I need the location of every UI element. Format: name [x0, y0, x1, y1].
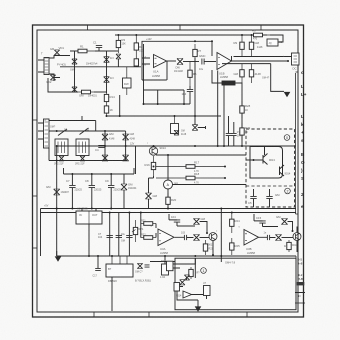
wire U3A out	[175, 236, 194, 238]
transistor Q6	[293, 233, 301, 241]
wire J2 top run	[49, 116, 96, 131]
connector J2	[44, 119, 50, 148]
wire U2 pins	[82, 209, 96, 257]
ic U5 box	[167, 261, 174, 271]
capacitor C6	[266, 193, 280, 199]
op-amp U1A	[153, 55, 167, 74]
wire bus y155	[156, 154, 246, 156]
resistor R13	[222, 81, 235, 85]
wire y185 link	[173, 184, 247, 186]
wire bank feed	[135, 146, 137, 174]
transformer T1	[41, 52, 49, 75]
capacitor C16	[267, 235, 269, 240]
transistor Q8	[183, 291, 192, 298]
resistor R18	[156, 172, 225, 180]
wire R8 to K1	[270, 35, 283, 42]
capacitor C20	[231, 133, 237, 135]
resistor R14	[104, 93, 115, 103]
diode VD6	[104, 76, 114, 82]
wire C7 leads	[71, 174, 73, 209]
diode VD7	[177, 59, 183, 65]
wire diode col 2	[125, 131, 127, 161]
resistor R9	[234, 35, 245, 57]
wire stage feed	[140, 213, 142, 238]
relay K3 box	[76, 139, 89, 156]
wire long vertical feedback	[194, 58, 196, 116]
ammeter M1	[164, 180, 179, 189]
wire gnd jog	[57, 251, 58, 257]
wire center v5	[223, 85, 225, 146]
wire bus to DC jack	[234, 56, 293, 58]
diode VD22	[184, 275, 189, 280]
capacitor C11	[116, 235, 122, 237]
wire bridge top rail	[70, 50, 80, 52]
diode VD3	[72, 59, 77, 64]
marker circle 10	[284, 135, 290, 141]
diode VD15	[46, 185, 60, 195]
title block column	[295, 256, 305, 310]
wire fb top 2	[288, 222, 293, 232]
buzzer HA1 box	[162, 264, 169, 275]
wire collector loop	[250, 147, 283, 179]
diode VD16	[121, 183, 133, 191]
resistor R5	[134, 58, 138, 67]
diode VD8	[59, 156, 64, 161]
wire stage in drops	[155, 224, 157, 238]
wire diode col 1	[104, 131, 106, 161]
op-amp U1B	[217, 53, 232, 76]
wire U5 link	[173, 258, 195, 268]
wire C8 leads	[91, 174, 93, 209]
wire cluster link 1	[180, 287, 204, 295]
transistor Q5	[209, 233, 217, 241]
wire main bus y146	[57, 145, 296, 147]
resistor R16	[145, 156, 156, 176]
diode VD9	[80, 156, 85, 161]
wire rectifier top	[49, 56, 70, 59]
pot wiper arrow	[132, 230, 136, 233]
potentiometer RP1	[133, 220, 144, 242]
wire J2 bottom drop	[48, 148, 50, 161]
wire left main drop	[56, 146, 58, 256]
diode VD23	[180, 280, 185, 285]
wire opamp1 to VD7	[167, 60, 177, 63]
resistor R27	[189, 267, 193, 279]
wire U4 bottom pin	[111, 277, 113, 311]
capacitor C17	[95, 268, 101, 270]
frame zone tick top 2	[179, 25, 181, 30]
diode VD14	[146, 193, 158, 199]
wire C3 stub	[189, 86, 191, 104]
capacitor C14	[184, 235, 186, 240]
transistor Q4 power	[280, 165, 291, 176]
capacitor C4	[95, 145, 105, 152]
frame zone tick top 1	[87, 25, 89, 30]
diode VD24	[174, 130, 179, 135]
ic U7 box	[204, 286, 211, 296]
resistor R2	[78, 90, 94, 97]
resistor R6	[188, 62, 197, 87]
transistor Q3 power	[263, 147, 275, 165]
capacitor C5	[248, 196, 257, 205]
resistor R29	[240, 123, 251, 140]
capacitor C2	[199, 54, 206, 64]
wire Q6 collector	[296, 227, 298, 253]
resistor R12	[249, 64, 261, 83]
frame zone tick left 1	[33, 119, 38, 121]
diode VD10	[102, 132, 114, 140]
wire C6 leads	[269, 189, 271, 207]
relay K1 box	[267, 39, 278, 46]
diode VD25	[192, 125, 198, 131]
wire C19 leads	[228, 116, 230, 146]
wire C2 to opamp2	[205, 61, 217, 63]
relay K2 box	[55, 139, 68, 156]
diode VD2	[46, 75, 56, 84]
diode VD5	[104, 56, 114, 62]
capacitor C10	[107, 235, 113, 237]
wire VD26 lead	[117, 59, 119, 67]
wire U3B out	[259, 236, 276, 238]
wire vertical bridge left	[74, 51, 76, 92]
capacitor C12	[126, 235, 132, 237]
dashed enclosure box	[246, 129, 295, 207]
net label column	[296, 70, 307, 214]
wire VD20 to Q6	[282, 237, 294, 239]
resistor R20	[166, 193, 177, 209]
wire lower link	[222, 63, 271, 65]
wire relay top bus	[49, 130, 126, 132]
wire VD18 to Q5	[200, 237, 210, 239]
wire C15 link	[254, 214, 278, 227]
wire C13 link	[169, 214, 195, 226]
wire main bus A	[41, 208, 297, 210]
wire VD14 to bus	[148, 199, 150, 209]
wire base feed	[246, 159, 263, 161]
wire VD25 leads	[195, 116, 206, 129]
wire bank left drop	[64, 168, 135, 174]
wire opamp box bottom	[144, 89, 185, 91]
wire meter top	[167, 155, 169, 180]
wire center v4	[217, 71, 219, 147]
capacitor C18	[145, 265, 150, 267]
diode VD21	[137, 263, 142, 268]
wire top supply bus	[115, 34, 267, 36]
wire T1 input stubs	[38, 60, 44, 72]
wire lower bus A	[57, 255, 296, 257]
wire R1 to node	[95, 50, 118, 52]
wire C17 stub	[97, 256, 99, 268]
resistor R21	[141, 222, 157, 226]
wire r stack to bus	[107, 115, 222, 117]
capacitor C8	[85, 179, 95, 188]
wire center v2	[157, 90, 159, 104]
wire HA1 stub	[164, 256, 166, 264]
wire R13 to vert	[235, 83, 242, 146]
marker circle 2	[285, 188, 291, 194]
resistor R10	[249, 35, 259, 57]
marker circle 1	[201, 268, 207, 274]
wire opamp2 fb drop	[212, 41, 232, 61]
frame zone tick left 2	[33, 195, 38, 197]
resistor R22	[141, 236, 157, 240]
wire gnd stub	[197, 305, 199, 307]
resistor R15	[104, 103, 113, 116]
capacitor C19	[226, 133, 232, 135]
resistor R7	[193, 44, 202, 62]
diode VD20	[276, 235, 282, 241]
wire cap bank top rail	[64, 173, 135, 175]
wire cluster vertical	[194, 258, 196, 278]
wire center v3	[183, 90, 185, 104]
wire J2 stubs	[38, 123, 44, 139]
wire bridge bottom rail	[48, 78, 78, 92]
wire fb top	[200, 222, 208, 234]
op-amp U3A	[158, 229, 174, 251]
capacitor C3	[182, 89, 194, 96]
resistor R4	[134, 35, 143, 58]
capacitor C13	[171, 215, 180, 222]
wire meter bottom	[167, 189, 169, 209]
diode VD17	[194, 217, 206, 225]
frame zone tick bottom 2	[148, 312, 150, 317]
voltage ref box	[171, 116, 179, 134]
frame zone tick left 3	[33, 247, 38, 249]
wire cluster link 2	[177, 291, 198, 305]
diode VD1	[54, 46, 64, 55]
wire VD7 to C2	[183, 61, 199, 63]
oscillator module U4 box	[106, 256, 133, 283]
wire C1 stub	[98, 48, 100, 51]
diode VD19	[276, 215, 288, 225]
diode VD4	[72, 87, 77, 92]
diode VD12	[102, 155, 108, 161]
resistor R23	[203, 240, 207, 255]
wire C5 leads	[253, 189, 255, 207]
capacitor C9	[105, 179, 114, 188]
frame zone tick top 3	[260, 25, 262, 30]
ground arrow bottom	[195, 307, 200, 311]
wire U2 out drop	[110, 213, 130, 257]
wire opamp1 out drop	[166, 61, 168, 80]
ground arrow right	[284, 92, 289, 96]
wire opamp1 feedback loop	[142, 41, 212, 80]
wire node bridge mid	[60, 66, 141, 68]
wire to arrow node	[271, 64, 284, 92]
wire VD16 leads	[123, 174, 125, 209]
wire C20 leads	[233, 122, 235, 146]
capacitor C7	[66, 179, 76, 188]
resistor R25	[230, 238, 240, 255]
wire box corner	[119, 95, 121, 116]
wire left drop to diode	[149, 176, 154, 193]
frame zone tick bottom 3	[246, 312, 248, 317]
wire rectifier bottom left	[49, 74, 60, 81]
diode VD18	[194, 235, 200, 241]
resistor R8	[246, 29, 270, 37]
junction dot loop	[253, 159, 255, 161]
diode VD26	[116, 54, 121, 59]
frame zone tick bottom 1	[93, 312, 95, 317]
resistor R24	[230, 213, 240, 234]
wire center h y104	[144, 103, 191, 105]
transistor Q2	[149, 146, 166, 155]
wire vertical bridge right	[106, 51, 108, 93]
wire Q5 emitter drop	[212, 241, 214, 256]
resistor R17	[156, 161, 225, 169]
wire lower bus B	[150, 261, 175, 263]
switch S1	[58, 129, 67, 136]
resistor R28	[240, 101, 251, 118]
resistor R11	[234, 64, 245, 83]
wire center v1	[143, 44, 145, 104]
regulator U2 box	[76, 207, 102, 225]
diode VD13	[123, 155, 129, 161]
wire cluster link 3	[187, 277, 207, 299]
wire relay bottom bus	[49, 160, 127, 162]
resistor R1	[70, 45, 95, 53]
ground arrow left	[55, 257, 60, 261]
wire bottom rail to right	[94, 91, 107, 93]
wire C9 leads	[110, 174, 112, 209]
capacitor C1	[93, 41, 102, 48]
pcb outline rectangle	[175, 258, 296, 310]
wire stage divider	[220, 209, 222, 263]
switch S2	[80, 128, 89, 135]
wire left col drop	[40, 209, 42, 257]
wire opamp2 fb resistor	[212, 70, 222, 83]
box DW regulator	[123, 67, 132, 95]
dashed divider	[246, 185, 295, 187]
connector J1 DC jack	[292, 53, 300, 71]
ic U6 box	[174, 283, 180, 292]
wire opamp2 output	[232, 60, 289, 62]
resistor R3	[116, 35, 125, 53]
drawing frame outer border	[33, 25, 304, 317]
resistor R26	[284, 240, 291, 252]
diode VD11	[123, 132, 135, 140]
capacitor C15	[256, 216, 266, 223]
drawing frame inner border	[37, 30, 298, 312]
wire main bus B	[41, 212, 297, 214]
op-amp U3B	[244, 230, 259, 252]
